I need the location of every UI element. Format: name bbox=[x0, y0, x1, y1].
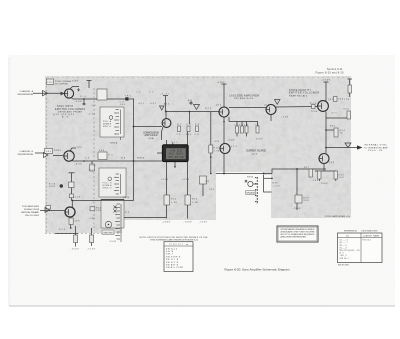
svg-text:+12V: +12V bbox=[214, 141, 220, 143]
svg-text:R20: R20 bbox=[205, 108, 211, 110]
svg-text:3.9K: 3.9K bbox=[214, 151, 221, 153]
svg-text:-150V: -150V bbox=[71, 249, 80, 251]
svg-text:AMPLIFIER: AMPLIFIER bbox=[145, 134, 158, 137]
svg-text:SW B-2 B: SW B-2 B bbox=[166, 262, 179, 264]
svg-text:+R5_2: +R5_2 bbox=[340, 255, 347, 257]
svg-text:1.5K: 1.5K bbox=[171, 202, 178, 204]
svg-text:SW R-7 B: SW R-7 B bbox=[166, 259, 179, 261]
svg-text:.001: .001 bbox=[149, 103, 156, 105]
svg-text:+5V: +5V bbox=[91, 105, 97, 107]
svg-text:TO INTERSYNC AMP: TO INTERSYNC AMP bbox=[364, 146, 389, 149]
svg-text:F50/51: F50/51 bbox=[363, 240, 371, 242]
svg-text:SELECTED: SELECTED bbox=[338, 265, 350, 267]
svg-text:+2.2V: +2.2V bbox=[161, 179, 169, 181]
svg-text:No.: No. bbox=[346, 235, 350, 237]
svg-text:R7: R7 bbox=[177, 124, 181, 126]
svg-text:R16: R16 bbox=[214, 148, 220, 150]
svg-text:SW A-10: SW A-10 bbox=[166, 247, 177, 250]
svg-text:C6: C6 bbox=[85, 158, 89, 160]
svg-text:DRIVE AND PROBE: DRIVE AND PROBE bbox=[58, 110, 83, 113]
svg-text:SYNC B: SYNC B bbox=[137, 158, 145, 160]
svg-text:Figure 8-20 and 8-20: Figure 8-20 and 8-20 bbox=[316, 72, 345, 75]
svg-text:R9: R9 bbox=[125, 212, 129, 214]
svg-text:R44: R44 bbox=[340, 130, 345, 132]
svg-text:SYNC INPUT FROM: SYNC INPUT FROM bbox=[18, 154, 34, 156]
svg-text:COMMON BASE: COMMON BASE bbox=[143, 132, 159, 135]
svg-text:CHANNEL B: CHANNEL B bbox=[20, 150, 34, 153]
svg-text:820: 820 bbox=[344, 109, 350, 111]
svg-text:TP 39 62: TP 39 62 bbox=[168, 157, 185, 159]
svg-text:Q20: Q20 bbox=[264, 105, 269, 107]
svg-text:SIGNAL FROM: SIGNAL FROM bbox=[24, 208, 39, 211]
svg-text:+12V: +12V bbox=[281, 116, 289, 118]
svg-text:10K: 10K bbox=[339, 177, 345, 179]
svg-text:-150V: -150V bbox=[87, 249, 96, 251]
svg-text:R10: R10 bbox=[89, 170, 95, 172]
svg-text:SYNC ×1: SYNC ×1 bbox=[103, 125, 111, 128]
svg-text:VR6: VR6 bbox=[46, 151, 51, 153]
svg-text:R20 AND R400: R20 AND R400 bbox=[234, 97, 254, 100]
svg-text:SW STEP B: SW STEP B bbox=[166, 256, 181, 258]
svg-text:Figure 8-20. Sync Amplifier Sc: Figure 8-20. Sync Amplifier Schematic Di… bbox=[225, 268, 291, 272]
svg-text:EMITTER FOLLOWER: EMITTER FOLLOWER bbox=[289, 93, 319, 95]
svg-text:R42: R42 bbox=[330, 126, 335, 128]
svg-text:VR5: VR5 bbox=[47, 82, 52, 84]
svg-text:+9.5: +9.5 bbox=[331, 113, 337, 115]
svg-text:TP5: TP5 bbox=[77, 147, 82, 149]
svg-text:-150V: -150V bbox=[293, 208, 302, 210]
svg-text:R14: R14 bbox=[171, 199, 177, 201]
svg-text:Section 9-11: Section 9-11 bbox=[327, 68, 343, 71]
svg-text:Q14: Q14 bbox=[216, 105, 221, 107]
svg-text:Q24: Q24 bbox=[252, 153, 258, 155]
svg-text:C34: C34 bbox=[338, 99, 343, 101]
svg-text:A13: A13 bbox=[164, 102, 169, 105]
svg-text:C36: C36 bbox=[313, 180, 318, 182]
svg-text:39K: 39K bbox=[304, 200, 310, 202]
svg-text:SYNC TRIG: SYNC TRIG bbox=[104, 232, 114, 234]
svg-text:R8: R8 bbox=[195, 124, 199, 126]
svg-text:PLUG - IN: PLUG - IN bbox=[368, 150, 382, 152]
svg-text:SW-T: SW-T bbox=[166, 254, 174, 256]
svg-text:-150V: -150V bbox=[320, 183, 329, 185]
svg-text:NEAR R40 A16: NEAR R40 A16 bbox=[289, 94, 308, 97]
svg-text:SYNC A: SYNC A bbox=[110, 142, 118, 145]
svg-text:390: 390 bbox=[99, 150, 104, 152]
svg-text:10K: 10K bbox=[96, 210, 102, 212]
svg-text:R36: R36 bbox=[273, 182, 278, 184]
svg-text:TP40: TP40 bbox=[311, 111, 317, 113]
svg-text:Q34: Q34 bbox=[328, 99, 333, 101]
svg-text:15K: 15K bbox=[344, 99, 350, 101]
svg-text:R37: R37 bbox=[304, 167, 309, 169]
svg-text:AC 39A: AC 39A bbox=[169, 153, 185, 156]
svg-text:DC COUPLED: DC COUPLED bbox=[55, 84, 69, 86]
svg-text:SW A-1: SW A-1 bbox=[340, 257, 349, 260]
svg-text:R6: R6 bbox=[109, 155, 113, 157]
svg-text:C5: C5 bbox=[137, 91, 141, 93]
svg-text:SYNC MODE: SYNC MODE bbox=[247, 193, 256, 195]
svg-text:SYNC INPUT FROM: SYNC INPUT FROM bbox=[18, 94, 34, 96]
svg-text:AS IN CONTROL SETTINGS USED.: AS IN CONTROL SETTINGS USED. bbox=[281, 236, 307, 239]
svg-text:R15: R15 bbox=[192, 199, 198, 201]
svg-text:+2.2V: +2.2V bbox=[182, 179, 190, 181]
svg-text:.001: .001 bbox=[119, 104, 125, 106]
svg-text:R40: R40 bbox=[310, 103, 316, 105]
svg-text:+4.97: +4.97 bbox=[160, 94, 170, 96]
svg-text:REFERENCE: REFERENCE bbox=[344, 230, 358, 232]
svg-text:Q13 Q23 Q33: Q13 Q23 Q33 bbox=[53, 114, 75, 116]
svg-text:NOTE: SWITCH POSITIONS FOR SEL: NOTE: SWITCH POSITIONS FOR SELECTED DETA… bbox=[140, 236, 209, 239]
svg-text:CLASSIF. NAME: CLASSIF. NAME bbox=[363, 234, 380, 237]
svg-text:SYNC AMPLIFIER <3>: SYNC AMPLIFIER <3> bbox=[325, 215, 351, 218]
svg-text:15K: 15K bbox=[75, 220, 81, 222]
svg-text:C15: C15 bbox=[205, 181, 209, 183]
svg-text:Q5A: Q5A bbox=[149, 137, 155, 140]
svg-text:SW40: SW40 bbox=[247, 177, 253, 179]
svg-text:-150V: -150V bbox=[109, 241, 117, 243]
svg-text:-4.6V: -4.6V bbox=[75, 164, 83, 166]
svg-text:+12V: +12V bbox=[273, 185, 281, 187]
svg-text:Q24: Q24 bbox=[231, 146, 237, 148]
svg-text:330: 330 bbox=[186, 134, 191, 136]
svg-text:SW B: SW B bbox=[166, 251, 174, 253]
svg-text:TP5: TP5 bbox=[125, 96, 131, 98]
svg-text:+5 62: +5 62 bbox=[170, 151, 185, 153]
svg-text:+5V: +5V bbox=[91, 165, 97, 167]
svg-text:Q36: Q36 bbox=[329, 162, 334, 164]
svg-text:SYNC: SYNC bbox=[54, 150, 62, 152]
svg-text:VIA 200 MHZ: VIA 200 MHZ bbox=[25, 214, 40, 217]
svg-text:VERTICAL PREAMP: VERTICAL PREAMP bbox=[21, 211, 40, 214]
svg-text:A15: A15 bbox=[188, 99, 192, 102]
svg-text:STATE IDENTITY: STATE IDENTITY bbox=[289, 89, 311, 92]
svg-text:THIS SCHEMATIC ARE SHOWN IN FI: THIS SCHEMATIC ARE SHOWN IN FIGURE 8-21 bbox=[150, 238, 199, 241]
svg-text:DESIGNATORS: DESIGNATORS bbox=[362, 229, 379, 232]
svg-text:SYNC ×2: SYNC ×2 bbox=[103, 187, 112, 190]
svg-text:-150V: -150V bbox=[184, 222, 193, 224]
svg-text:DL5: DL5 bbox=[172, 142, 178, 144]
svg-text:CIRCUIT №: CIRCUIT № bbox=[169, 243, 188, 246]
svg-text:+150V: +150V bbox=[322, 79, 331, 81]
svg-text:+150V: +150V bbox=[70, 81, 79, 83]
svg-text:+180: +180 bbox=[89, 218, 96, 220]
svg-text:1.5K: 1.5K bbox=[192, 202, 199, 204]
svg-text:100K: 100K bbox=[49, 186, 56, 188]
svg-text:SYNC AMPLIFIER: SYNC AMPLIFIER bbox=[22, 205, 39, 208]
svg-text:-3.4V: -3.4V bbox=[88, 114, 96, 116]
svg-text:+12V: +12V bbox=[228, 140, 236, 142]
svg-text:SW A-3 COMP: SW A-3 COMP bbox=[166, 266, 184, 269]
svg-text:CURRENT SOURCE: CURRENT SOURCE bbox=[246, 149, 266, 152]
svg-text:-150V: -150V bbox=[162, 222, 171, 224]
svg-text:C9: C9 bbox=[187, 124, 191, 126]
svg-text:-4.6V: -4.6V bbox=[75, 101, 83, 103]
svg-text:.001: .001 bbox=[137, 103, 144, 105]
svg-text:SW10: SW10 bbox=[123, 197, 129, 199]
svg-text:C28: C28 bbox=[75, 196, 80, 198]
svg-text:.001: .001 bbox=[208, 189, 214, 191]
svg-text:+150V: +150V bbox=[217, 82, 226, 84]
svg-text:SYNC INPUT: SYNC INPUT bbox=[57, 106, 74, 108]
svg-text:A5: A5 bbox=[340, 252, 344, 255]
svg-text:-150V: -150V bbox=[199, 222, 208, 224]
svg-text:INTERNAL SYNC: INTERNAL SYNC bbox=[364, 144, 387, 147]
svg-text:R8: R8 bbox=[121, 158, 125, 160]
svg-text:C7: C7 bbox=[149, 91, 153, 93]
svg-text:SW BST B: SW BST B bbox=[166, 265, 179, 267]
svg-text:R29: R29 bbox=[59, 229, 65, 231]
svg-text:CHANNEL A: CHANNEL A bbox=[20, 90, 34, 93]
svg-text:-150V: -150V bbox=[255, 138, 264, 140]
